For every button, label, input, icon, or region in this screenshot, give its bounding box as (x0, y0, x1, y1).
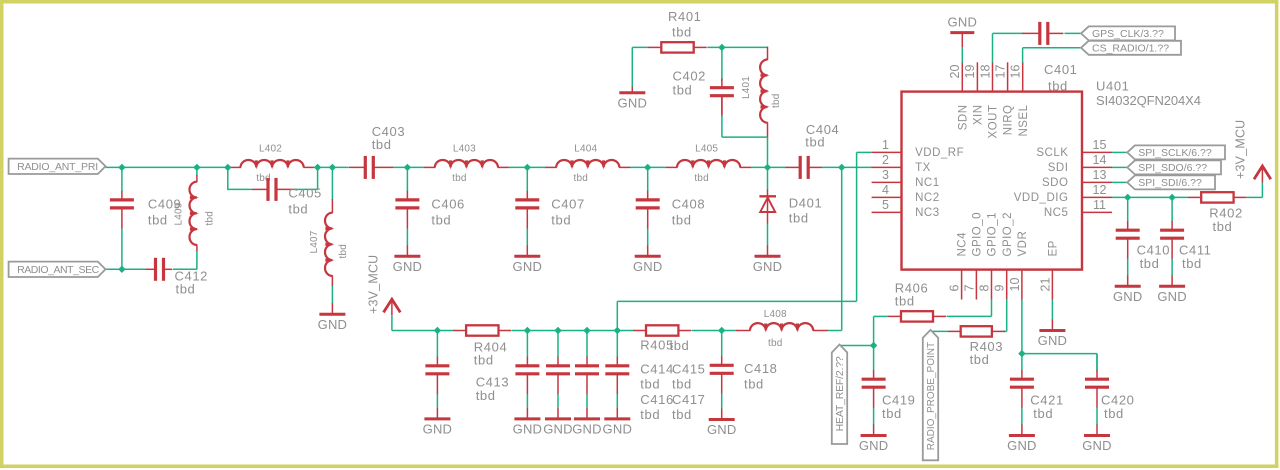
svg-text:tbd: tbd (744, 376, 764, 391)
svg-text:tbd: tbd (694, 173, 709, 184)
svg-text:GND: GND (393, 259, 423, 274)
svg-text:tbd: tbd (176, 282, 196, 297)
svg-text:RADIO_PROBE_POINT: RADIO_PROBE_POINT (926, 342, 937, 450)
svg-text:C418: C418 (744, 361, 777, 376)
svg-text:GPIO_0: GPIO_0 (972, 212, 984, 257)
svg-text:tbd: tbd (895, 293, 915, 308)
svg-text:tbd: tbd (476, 388, 496, 403)
svg-text:tbd: tbd (771, 93, 782, 108)
svg-text:NC2: NC2 (915, 192, 940, 204)
svg-text:GND: GND (859, 438, 889, 453)
svg-text:SPI_SDI/6.??: SPI_SDI/6.?? (1138, 177, 1202, 189)
svg-text:C414: C414 (640, 362, 673, 377)
svg-text:D401: D401 (789, 196, 822, 211)
svg-text:GND: GND (423, 421, 453, 436)
svg-text:L404: L404 (574, 143, 597, 154)
svg-text:13: 13 (1093, 168, 1107, 182)
svg-text:RADIO_ANT_PRI: RADIO_ANT_PRI (17, 161, 98, 173)
svg-text:L409: L409 (174, 202, 185, 225)
svg-text:GPIO_2: GPIO_2 (1002, 212, 1014, 257)
svg-text:tbd: tbd (640, 407, 660, 422)
svg-text:tbd: tbd (672, 24, 692, 39)
svg-text:L402: L402 (259, 143, 282, 154)
svg-text:tbd: tbd (673, 83, 693, 98)
svg-text:U401: U401 (1096, 79, 1129, 94)
svg-text:20: 20 (948, 65, 962, 79)
svg-text:14: 14 (1093, 153, 1107, 167)
svg-text:NC5: NC5 (1044, 207, 1069, 219)
svg-text:C415: C415 (672, 362, 705, 377)
svg-text:GND: GND (1082, 438, 1112, 453)
svg-text:L403: L403 (453, 143, 476, 154)
svg-text:10: 10 (1008, 278, 1022, 292)
svg-text:tbd: tbd (789, 211, 809, 226)
svg-text:C408: C408 (672, 196, 705, 211)
svg-text:SPI_SDO/6.??: SPI_SDO/6.?? (1138, 162, 1207, 174)
svg-text:SI4032QFN204X4: SI4032QFN204X4 (1096, 93, 1201, 108)
svg-text:5: 5 (882, 198, 889, 212)
svg-text:GND: GND (948, 15, 978, 30)
svg-text:1: 1 (882, 138, 889, 152)
svg-text:GND: GND (513, 259, 543, 274)
svg-text:C407: C407 (551, 196, 584, 211)
svg-text:NSEL: NSEL (1018, 104, 1030, 136)
svg-text:GND: GND (572, 421, 602, 436)
svg-text:tbd: tbd (452, 173, 467, 184)
svg-text:GND: GND (603, 421, 633, 436)
svg-text:C406: C406 (431, 196, 464, 211)
svg-text:NC4: NC4 (957, 232, 969, 257)
svg-text:tbd: tbd (670, 338, 690, 353)
svg-text:tbd: tbd (1104, 406, 1124, 421)
svg-text:RADIO_ANT_SEC: RADIO_ANT_SEC (17, 264, 100, 276)
svg-text:tbd: tbd (204, 211, 215, 226)
svg-text:GND: GND (707, 422, 737, 437)
svg-text:6: 6 (948, 285, 962, 292)
svg-text:21: 21 (1038, 278, 1052, 292)
svg-text:tbd: tbd (1140, 256, 1160, 271)
svg-text:NC1: NC1 (915, 177, 940, 189)
svg-text:tbd: tbd (474, 353, 494, 368)
svg-text:19: 19 (963, 65, 977, 79)
svg-text:tbd: tbd (672, 212, 692, 227)
svg-text:tbd: tbd (1213, 219, 1233, 234)
svg-text:tbd: tbd (551, 212, 571, 227)
svg-text:L407: L407 (309, 230, 320, 253)
svg-text:+3V_MCU: +3V_MCU (366, 255, 380, 314)
svg-text:4: 4 (882, 183, 889, 197)
svg-text:15: 15 (1093, 138, 1107, 152)
svg-text:GND: GND (513, 421, 543, 436)
svg-text:SCLK: SCLK (1036, 147, 1068, 159)
svg-text:11: 11 (1093, 198, 1106, 212)
svg-text:VDD_RF: VDD_RF (915, 147, 964, 159)
svg-text:tbd: tbd (672, 377, 692, 392)
svg-text:tbd: tbd (1182, 256, 1202, 271)
svg-text:C402: C402 (673, 69, 706, 84)
svg-text:GND: GND (1007, 438, 1037, 453)
svg-text:tbd: tbd (574, 173, 589, 184)
svg-text:CS_RADIO/1.??: CS_RADIO/1.?? (1092, 43, 1169, 55)
svg-text:GND: GND (318, 317, 348, 332)
svg-text:XOUT: XOUT (988, 105, 1000, 139)
svg-text:R401: R401 (668, 9, 701, 24)
svg-text:18: 18 (978, 65, 992, 79)
svg-text:HEAT_REF/2.??: HEAT_REF/2.?? (834, 356, 846, 431)
svg-text:8: 8 (978, 285, 992, 292)
svg-text:tbd: tbd (640, 377, 660, 392)
svg-text:SDO: SDO (1042, 177, 1068, 189)
svg-text:tbd: tbd (805, 135, 825, 150)
svg-text:12: 12 (1093, 183, 1107, 197)
svg-text:tbd: tbd (148, 212, 168, 227)
svg-text:L405: L405 (695, 143, 718, 154)
svg-text:GND: GND (1038, 333, 1068, 348)
svg-text:VDR: VDR (1017, 231, 1029, 257)
svg-text:7: 7 (962, 285, 976, 292)
svg-text:GND: GND (618, 95, 648, 110)
svg-text:SDN: SDN (957, 105, 969, 131)
svg-text:C401: C401 (1044, 62, 1077, 77)
svg-text:L401: L401 (741, 76, 752, 99)
svg-text:tbd: tbd (431, 212, 451, 227)
svg-text:NC3: NC3 (915, 207, 940, 219)
svg-text:tbd: tbd (970, 352, 990, 367)
svg-text:2: 2 (882, 153, 889, 167)
svg-text:GPS_CLK/3.??: GPS_CLK/3.?? (1092, 28, 1164, 40)
svg-text:tbd: tbd (1048, 78, 1068, 93)
svg-text:C417: C417 (672, 392, 705, 407)
svg-text:+3V_MCU: +3V_MCU (1234, 120, 1248, 179)
svg-text:tbd: tbd (338, 244, 349, 259)
svg-text:tbd: tbd (768, 338, 783, 349)
svg-text:VDD_DIG: VDD_DIG (1014, 192, 1069, 204)
svg-text:NIRQ: NIRQ (1003, 105, 1015, 136)
svg-text:tbd: tbd (372, 137, 392, 152)
svg-text:C405: C405 (288, 186, 321, 201)
svg-text:tbd: tbd (1033, 406, 1053, 421)
svg-text:SDI: SDI (1048, 162, 1069, 174)
svg-text:L408: L408 (764, 309, 787, 320)
svg-text:C416: C416 (640, 392, 673, 407)
svg-text:16: 16 (1009, 65, 1023, 79)
svg-text:TX: TX (915, 162, 931, 174)
svg-text:XIN: XIN (973, 105, 985, 126)
svg-text:EP: EP (1048, 240, 1060, 256)
svg-text:GND: GND (753, 259, 783, 274)
svg-text:GND: GND (1157, 289, 1187, 304)
svg-text:tbd: tbd (882, 406, 902, 421)
svg-text:GND: GND (1113, 289, 1143, 304)
svg-text:GPIO_1: GPIO_1 (987, 212, 999, 257)
svg-text:3: 3 (882, 168, 889, 182)
svg-text:GND: GND (633, 259, 663, 274)
svg-text:17: 17 (993, 65, 1007, 79)
svg-text:SPI_SCLK/6.??: SPI_SCLK/6.?? (1138, 147, 1212, 159)
svg-text:GND: GND (543, 421, 573, 436)
svg-text:9: 9 (993, 285, 1007, 292)
svg-text:tbd: tbd (672, 407, 692, 422)
svg-text:tbd: tbd (288, 202, 308, 217)
